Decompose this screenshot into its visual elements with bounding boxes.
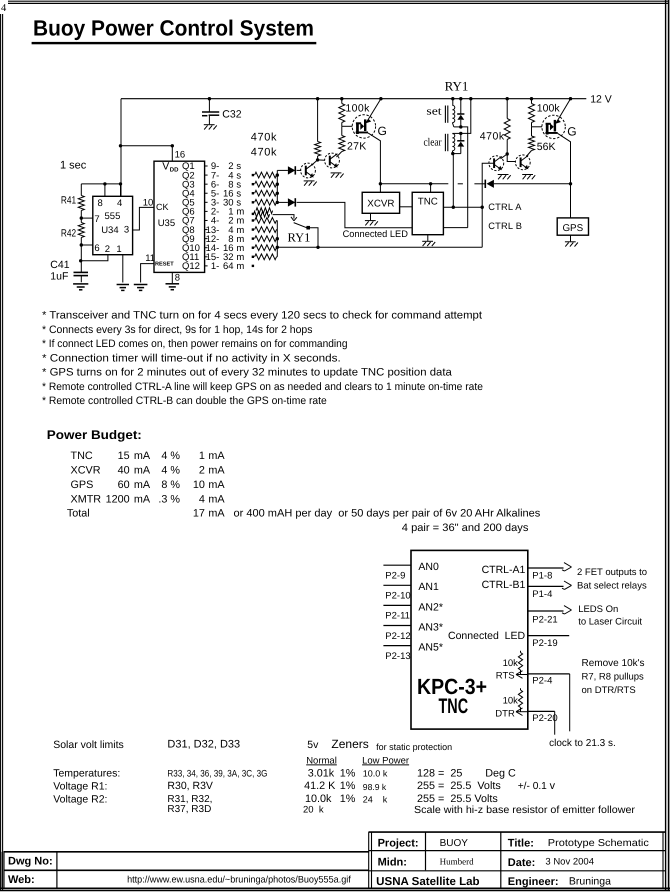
wire branch to U35 pin16	[121, 146, 173, 161]
ground T4 chassis	[522, 175, 535, 180]
wire TNC ground stub	[427, 235, 429, 241]
svg-text:TNC: TNC	[418, 197, 438, 208]
wire T2 base lead	[318, 159, 325, 161]
node 470k-T3-T4 junction	[506, 152, 509, 155]
wire set bottom jog to CTRL-B riser	[461, 127, 468, 228]
label Bruninga	[569, 876, 611, 888]
wire FET2 source down	[558, 133, 571, 183]
svg-text:P2-19: P2-19	[532, 638, 557, 649]
subhead Low Power	[362, 755, 409, 766]
node bus-16s	[276, 192, 279, 195]
label Bat select relays	[577, 581, 647, 592]
svg-text:Power Budget:: Power Budget:	[47, 428, 142, 442]
svg-text:m: m	[236, 261, 244, 272]
svg-text:XCVR: XCVR	[71, 465, 101, 477]
wire 12V drop to clear coil	[461, 99, 471, 134]
wire CTRL-A riser up	[481, 207, 483, 247]
wire switch to ctrl line	[310, 228, 318, 248]
label Humberd	[440, 857, 474, 867]
node bus-30s	[276, 201, 279, 204]
svg-text:* Connection timer will time-o: * Connection timer will time-out if no a…	[42, 352, 341, 364]
svg-text:128 = 25: 128 = 25	[417, 767, 462, 779]
svg-text:U34: U34	[101, 225, 118, 236]
svg-text:v: v	[550, 780, 556, 792]
svg-text:17: 17	[193, 508, 205, 520]
svg-text:2: 2	[105, 244, 110, 255]
wire bottom bank bus	[276, 221, 278, 257]
titleblock left outline	[0, 852, 670, 889]
pin Q9 (12) label 8m	[182, 234, 244, 245]
svg-text:P1-4: P1-4	[532, 589, 552, 600]
resistor 470k right	[504, 99, 510, 154]
svg-text:* If connect LED comes on, the: * If connect LED comes on, then power re…	[42, 338, 348, 350]
ground XCVR chassis	[365, 221, 378, 226]
wire T1 collector diagonal	[312, 160, 318, 165]
transistor Q-T3	[489, 156, 504, 171]
label 470k lower	[251, 146, 277, 158]
label Midn	[378, 856, 407, 868]
svg-text:Bat select relays: Bat select relays	[577, 581, 647, 592]
svg-text:Web:: Web:	[8, 874, 35, 886]
svg-text:Connected LED: Connected LED	[343, 229, 408, 240]
diode RY1 set flyback	[457, 99, 464, 127]
ground U34 pin1 earth	[117, 285, 129, 291]
wire U34 pin7 lead	[81, 217, 93, 219]
node bus-4s	[276, 173, 279, 176]
resistor 56K	[526, 127, 534, 157]
svg-text:56K: 56K	[537, 141, 556, 153]
svg-text:Voltage R2:: Voltage R2:	[53, 793, 107, 805]
node bus-8s	[276, 183, 279, 186]
svg-text:4 pair = 36" and 200 days: 4 pair = 36" and 200 days	[402, 522, 529, 534]
page border top double line	[8, 1, 669, 3]
label U35 pin 8 bottom	[175, 273, 180, 284]
node bus-16m	[276, 246, 279, 249]
node U34 pin8 junction	[103, 182, 106, 185]
label 1 sec	[60, 159, 87, 171]
wire TNC CTRL-B line	[443, 227, 467, 229]
capacitor C41	[74, 272, 89, 282]
svg-text:100k: 100k	[345, 102, 370, 114]
wire diode to T1	[297, 169, 302, 171]
svg-text:Scale with hi-z base resistor: Scale with hi-z base resistor of emitter…	[414, 805, 636, 816]
wire U35 pin8 stub	[171, 272, 173, 283]
svg-text:or 400 mAH per day or 50 days: or 400 mAH per day or 50 days per pair o…	[234, 508, 541, 520]
resistor 10k DTR	[518, 688, 522, 712]
node R42-pin6 junction	[80, 243, 83, 246]
label RTS	[496, 670, 515, 681]
svg-text:15: 15	[118, 450, 130, 462]
label 100k left	[345, 102, 370, 114]
label RY1 switch	[288, 231, 311, 245]
label RESET	[155, 262, 174, 268]
svg-text:10k: 10k	[503, 695, 519, 706]
svg-text:mA: mA	[134, 450, 151, 462]
svg-text:98.9 k: 98.9 k	[363, 782, 387, 792]
inductor RY1 clear coil core	[445, 134, 447, 151]
wire FET2 gate line	[532, 126, 543, 128]
wire TNC CTRL-A line	[443, 206, 482, 208]
wire dashed power continuation	[458, 183, 485, 185]
page border bottom line	[0, 890, 670, 892]
label USNA Satellite Lab	[376, 876, 479, 888]
resistor 100k right	[529, 99, 535, 127]
wire FET1 gate line	[342, 125, 353, 127]
label Web	[8, 874, 35, 886]
diode D-b on 30s line	[277, 198, 295, 206]
ground RESET earth	[134, 285, 148, 291]
svg-text:C41: C41	[50, 259, 69, 271]
node set coil bottom	[459, 125, 462, 128]
svg-text:D31, D32, D33: D31, D32, D33	[167, 739, 240, 751]
wire XCVR ground stub	[370, 213, 372, 220]
svg-text:Dwg No:: Dwg No:	[8, 856, 53, 868]
svg-text:CTRL A: CTRL A	[488, 202, 522, 212]
svg-text:27K: 27K	[347, 141, 367, 153]
svg-text:41.2 K: 41.2 K	[304, 780, 336, 792]
label url	[127, 875, 351, 886]
label U34 pin 7	[94, 214, 99, 225]
label BUOY	[440, 838, 469, 849]
label 470k upper	[251, 131, 277, 143]
node TNC top junction	[429, 182, 432, 185]
svg-text:DTR: DTR	[495, 709, 515, 720]
svg-text:set: set	[426, 106, 441, 118]
svg-text:470k: 470k	[251, 131, 277, 143]
resistor R42	[78, 218, 84, 245]
wire pin6 to C41	[80, 245, 82, 272]
label 2 FET outputs to	[577, 567, 647, 578]
label 10k RTS	[503, 658, 519, 669]
label KPC-3+	[417, 674, 487, 699]
resistor 470k bank row 16m	[252, 245, 278, 251]
node CTRL-A end	[481, 206, 484, 209]
svg-text:4: 4	[199, 493, 205, 505]
svg-text:GPS: GPS	[71, 479, 94, 491]
node 470k-T1-T2 junction	[316, 158, 319, 161]
svg-text:mA: mA	[208, 479, 225, 491]
resistor 27K	[337, 126, 345, 157]
svg-text:Q12: Q12	[182, 261, 200, 272]
svg-text:P2-11: P2-11	[385, 611, 410, 622]
page border right double line	[666, 0, 669, 891]
ground U35 pin8 earth	[166, 284, 180, 290]
transistor U-FET2	[542, 115, 565, 138]
label Prototype Schematic	[548, 838, 649, 849]
svg-text:TNC: TNC	[71, 450, 93, 462]
label Connected LED KPC	[448, 630, 525, 642]
label Project	[378, 837, 419, 849]
label TNC big	[439, 695, 469, 718]
pin P2-19 line	[528, 636, 569, 650]
node pin2 branch junction	[79, 259, 82, 262]
temperatures row	[53, 767, 516, 779]
pin Q2 (7) label 4s	[182, 170, 241, 181]
svg-text:RY1: RY1	[445, 79, 469, 94]
svg-text:G: G	[567, 124, 576, 138]
wire T3 collector diagonal	[501, 154, 508, 159]
label CTRL-A1	[482, 564, 526, 576]
svg-text:1: 1	[199, 450, 205, 462]
ground T3 chassis	[498, 175, 511, 180]
svg-text:10.0k: 10.0k	[305, 793, 332, 805]
svg-text:1-: 1-	[211, 261, 219, 272]
svg-text:* Remote controlled CTRL-B can: * Remote controlled CTRL-B can double th…	[42, 395, 327, 407]
label U34	[101, 225, 118, 236]
pin P2-4 line	[528, 674, 570, 731]
svg-text:P1-8: P1-8	[532, 570, 552, 581]
label 1uF	[50, 270, 68, 282]
svg-text:mA: mA	[208, 450, 225, 462]
svg-text:P2-20: P2-20	[532, 713, 557, 724]
svg-text:100k: 100k	[537, 102, 561, 114]
svg-text:2 FET outputs to: 2 FET outputs to	[577, 567, 647, 578]
capacitor C32	[202, 99, 219, 125]
label clock to 21.3s	[549, 738, 616, 749]
svg-text:P2-4: P2-4	[532, 675, 552, 686]
page number 4	[1, 3, 7, 14]
resistor 10k RTS	[518, 651, 522, 675]
pin P2-20 line	[528, 711, 558, 734]
label 27K	[347, 141, 367, 153]
svg-text:Project:: Project:	[378, 837, 419, 849]
svg-text:XCVR: XCVR	[367, 199, 394, 210]
box XCVR	[362, 192, 399, 213]
svg-text:Date:: Date:	[508, 857, 536, 869]
node clear coil bottom	[451, 152, 454, 155]
wire T3 base lead	[482, 163, 494, 207]
svg-text:P2-9: P2-9	[385, 571, 405, 582]
label U35	[158, 218, 175, 229]
svg-text:24 k: 24 k	[363, 795, 388, 805]
node rail branch to U35 Vdd	[119, 144, 122, 147]
svg-text:P2-13: P2-13	[385, 651, 410, 662]
switch RY1 contact arm	[294, 223, 307, 228]
label CTRL B	[488, 221, 522, 231]
ground C41 earth	[73, 284, 88, 290]
svg-text:Midn:: Midn:	[378, 856, 407, 868]
svg-text:16: 16	[175, 150, 186, 161]
resistor 470k bank row 2m	[252, 218, 278, 224]
pin Q4 (5) label 16s	[182, 188, 241, 199]
solar volt limits row	[53, 737, 452, 752]
pin Q7 (4) label 2m	[182, 216, 244, 227]
svg-text:RY1: RY1	[288, 231, 311, 245]
transistor U-FET1	[352, 115, 375, 138]
svg-text:8 %: 8 %	[161, 479, 180, 491]
svg-text:20 k: 20 k	[303, 805, 324, 816]
wire U34 pin1 to ground	[122, 255, 124, 283]
ground GPS chassis	[565, 242, 578, 247]
label pin 10	[143, 197, 154, 208]
wire U34 top supply line	[81, 183, 121, 185]
svg-text:470k: 470k	[480, 130, 505, 142]
resistor 470k left pullup	[315, 99, 321, 160]
svg-text:V: V	[162, 161, 169, 173]
svg-text:470k: 470k	[251, 146, 277, 158]
svg-text:Buoy Power Control System: Buoy Power Control System	[33, 15, 314, 40]
svg-text:3 Nov 2004: 3 Nov 2004	[545, 857, 594, 868]
svg-text:7: 7	[94, 214, 99, 225]
pin Q5 (3) label 30s	[182, 198, 241, 209]
resistor 470k bank row 30s	[252, 199, 278, 205]
R37 R3D row	[167, 804, 635, 816]
svg-text:6: 6	[94, 243, 99, 254]
svg-text:C32: C32	[222, 109, 241, 121]
wire XCVR-TNC link	[400, 206, 413, 208]
svg-text:Total: Total	[67, 508, 90, 520]
label Remove 10ks	[582, 658, 645, 669]
resistor 470k bank row 16s	[252, 190, 278, 196]
svg-text:+/- 0.1: +/- 0.1	[518, 781, 547, 792]
svg-text:on DTR/RTS: on DTR/RTS	[582, 685, 636, 696]
svg-text:555: 555	[105, 211, 121, 222]
svg-text:CTRL-A1: CTRL-A1	[482, 564, 526, 576]
svg-text:Title:: Title:	[508, 837, 534, 849]
label 3 Nov 2004	[545, 857, 594, 868]
svg-text:R41: R41	[61, 195, 76, 207]
svg-text:CTRL-B1: CTRL-B1	[482, 579, 526, 591]
svg-text:http://www.ew.usna.edu/~brunin: http://www.ew.usna.edu/~bruninga/photos/…	[127, 875, 351, 886]
svg-text:mA: mA	[134, 465, 151, 477]
svg-text:12 V: 12 V	[590, 93, 612, 105]
titleblock right outline	[369, 832, 666, 888]
node rail-setcoil	[451, 97, 454, 100]
svg-text:AN0: AN0	[418, 561, 439, 573]
svg-text:1 sec: 1 sec	[60, 159, 87, 171]
label U34 pin 3	[124, 225, 129, 236]
node 64m terminal dot	[252, 265, 254, 267]
svg-text:Voltage R1:: Voltage R1:	[53, 780, 107, 792]
svg-text:TNC: TNC	[439, 695, 469, 718]
svg-text:* Connects every 3s for direct: * Connects every 3s for direct, 9s for 1…	[42, 324, 313, 336]
inductor RY1 clear coil	[452, 133, 460, 153]
label R7 R8 pullups	[582, 671, 645, 682]
label Connected LED	[343, 229, 408, 240]
wire U34 pin2 lead	[81, 255, 108, 261]
svg-text:1uF: 1uF	[50, 270, 68, 282]
wire DTR arrow	[516, 708, 528, 716]
diode RY1 clear flyback	[457, 133, 464, 153]
svg-text:10k: 10k	[503, 658, 519, 669]
wire 30s diode to TNC (Connected LED)	[297, 202, 413, 227]
pin Q8 (13) label 4m	[182, 225, 244, 236]
svg-text:Solar volt limits: Solar volt limits	[53, 739, 124, 751]
svg-text:10: 10	[193, 479, 205, 491]
wire bank16m and switch to CTRL-A riser	[277, 246, 482, 248]
switch contact square	[306, 226, 310, 230]
heading Power Budget	[47, 428, 142, 442]
arrowhead onto switch pivot	[291, 217, 297, 221]
node GPS line junction	[569, 182, 572, 185]
svg-text:Bruninga: Bruninga	[569, 876, 611, 888]
label on DTR RTS	[582, 685, 636, 696]
node FET1 out to XCVR	[379, 182, 382, 185]
svg-text:8: 8	[175, 273, 180, 284]
label Date	[508, 857, 536, 869]
svg-text:mA: mA	[208, 508, 225, 520]
title Buoy Power Control System	[32, 15, 317, 44]
svg-text:DD: DD	[170, 166, 179, 173]
label R42	[61, 228, 76, 240]
svg-text:RESET: RESET	[155, 262, 174, 268]
svg-text:64: 64	[223, 261, 234, 272]
box TNC	[412, 192, 443, 234]
label C32	[222, 109, 241, 121]
svg-text:.3 %: .3 %	[158, 493, 180, 505]
svg-text:3: 3	[124, 225, 129, 236]
svg-text:Humberd: Humberd	[440, 857, 474, 867]
node rail-100k-left	[340, 97, 343, 100]
resistor 470k bank row 4s	[252, 172, 278, 178]
svg-text:5v: 5v	[307, 739, 319, 751]
svg-text:mA: mA	[208, 465, 225, 477]
wire U34 pin4 stub	[120, 184, 122, 196]
svg-text:clear: clear	[424, 136, 442, 148]
diode D-c to GPS line	[485, 180, 570, 188]
pin Q12 (1) label 64m	[182, 261, 244, 272]
subhead Normal	[306, 755, 337, 766]
resistor 470k bank row 1m doubled	[252, 208, 273, 217]
svg-text:RTS: RTS	[496, 670, 515, 681]
label U35 CK	[156, 202, 169, 212]
svg-text:Remove 10k's: Remove 10k's	[582, 658, 645, 669]
node switch line junction	[316, 246, 319, 249]
svg-text:AN2*: AN2*	[418, 601, 443, 613]
node bus-8m	[276, 237, 279, 240]
label 10k DTR	[503, 695, 519, 706]
wire TNC top stub	[430, 184, 432, 193]
label G FET1	[378, 124, 387, 138]
svg-text:10: 10	[143, 197, 154, 208]
wire clear bottom link	[453, 153, 461, 155]
diode D-a to T1 base	[288, 166, 295, 174]
label U34 pin 6	[94, 243, 99, 254]
label set	[426, 106, 441, 118]
node rail-100k-right	[530, 97, 533, 100]
label G FET2	[567, 124, 576, 138]
svg-text:mA: mA	[208, 493, 225, 505]
svg-text:mA: mA	[134, 493, 151, 505]
pin P1-8 line	[528, 563, 572, 582]
svg-text:BUOY: BUOY	[440, 838, 469, 849]
label R41	[61, 195, 76, 207]
node rail-setdiode	[459, 97, 462, 100]
pin Q10 (14) label 16m	[182, 243, 244, 254]
KPC left pins P2-9..P2-13 with AN labels	[383, 561, 443, 662]
label Title	[508, 837, 534, 849]
svg-text:AN5*: AN5*	[418, 642, 443, 654]
label Dwg No	[8, 856, 53, 868]
label RY1 relay	[445, 79, 469, 94]
label 555	[105, 211, 121, 222]
node rail-12Vdrop	[469, 97, 472, 100]
svg-text:60: 60	[118, 479, 130, 491]
svg-text:Low Power: Low Power	[362, 755, 409, 766]
node U34 pin4 junction	[119, 182, 122, 185]
pin Q11 (15) label 32m	[182, 252, 244, 263]
wire U34 pin3 to U35 CK	[133, 207, 154, 230]
wire 12V rail	[121, 98, 586, 100]
node clear coil top	[459, 132, 462, 135]
transistor Q-T4	[515, 155, 530, 170]
notes bullet list	[42, 310, 483, 408]
wire GPS supply	[570, 184, 572, 218]
svg-text:mA: mA	[134, 479, 151, 491]
svg-text:1%: 1%	[340, 793, 356, 805]
ground T2 chassis	[331, 173, 344, 178]
voltage R1 row	[53, 780, 555, 792]
